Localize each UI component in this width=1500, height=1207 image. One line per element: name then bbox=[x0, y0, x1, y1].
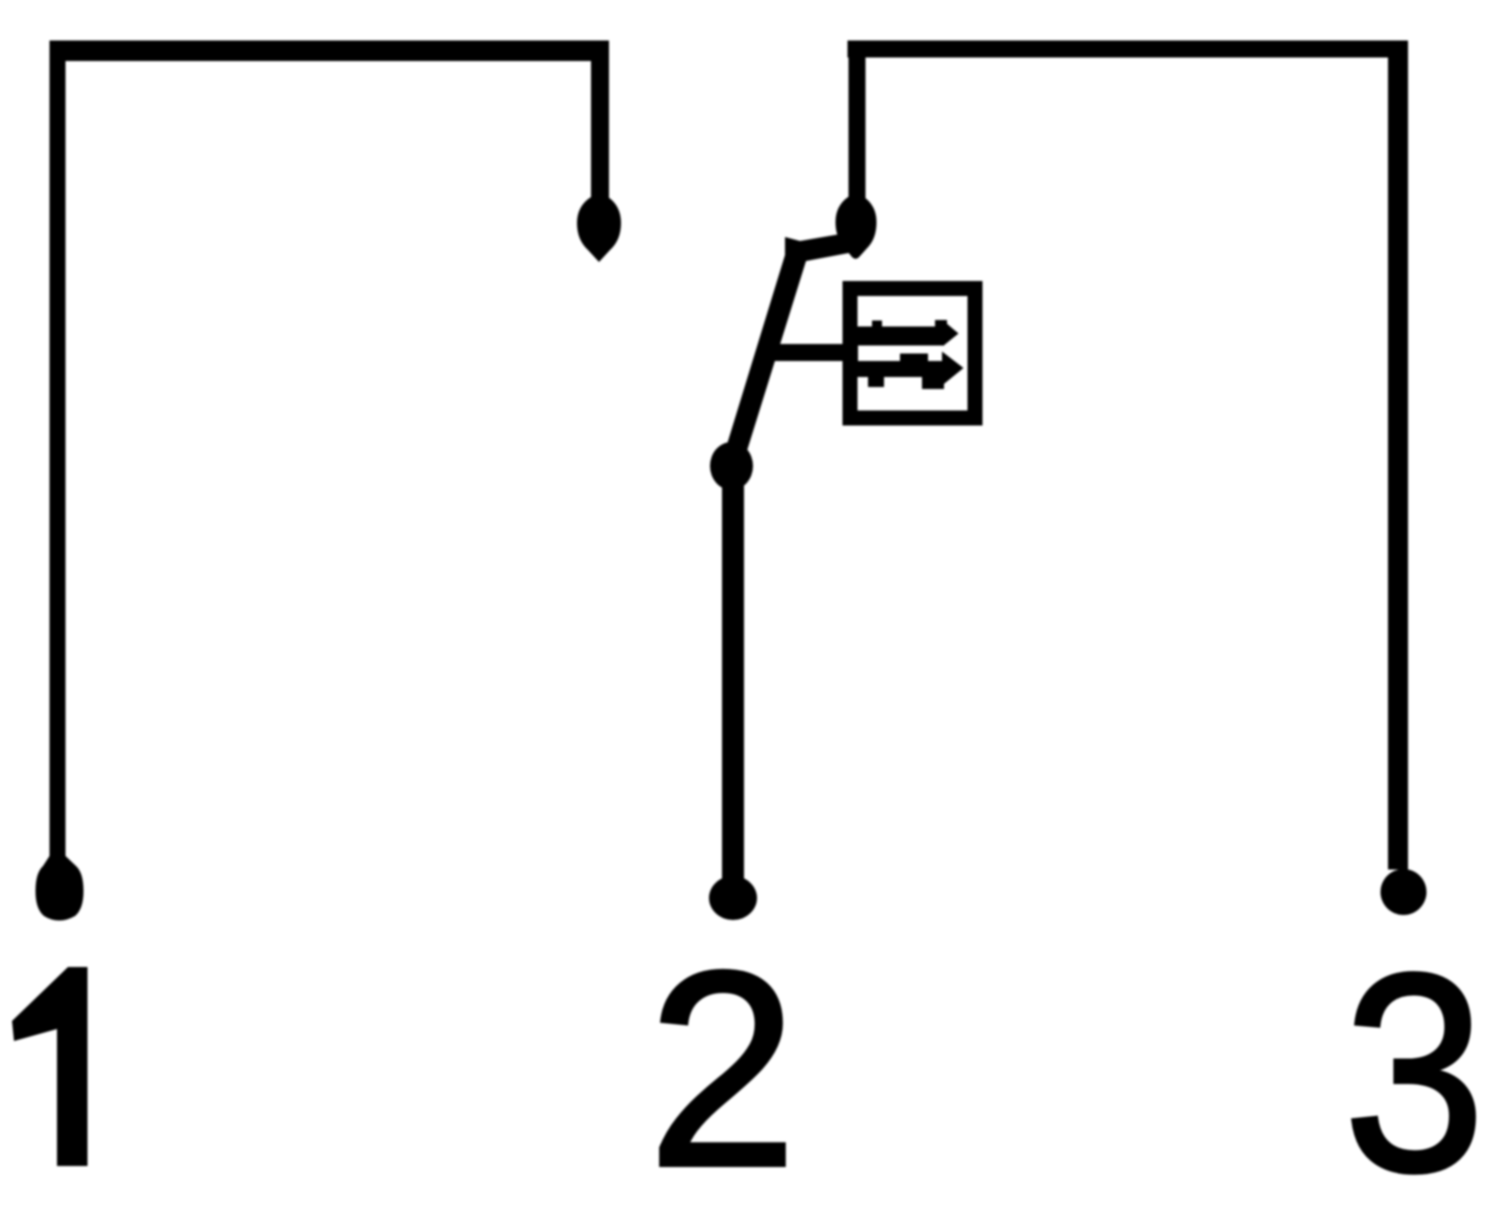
svg-text:2: 2 bbox=[648, 914, 798, 1207]
svg-text:3: 3 bbox=[1343, 915, 1485, 1207]
